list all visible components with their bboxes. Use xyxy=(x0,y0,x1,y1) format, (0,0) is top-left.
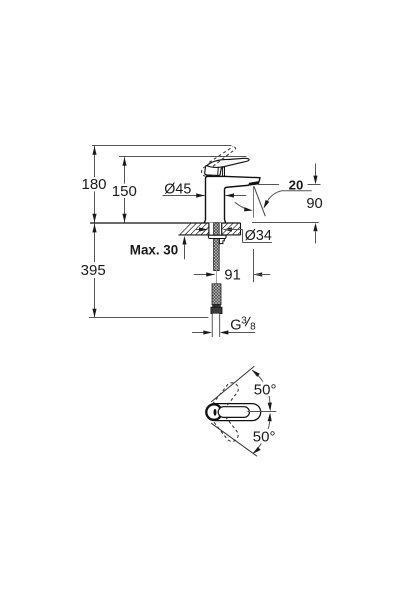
braided hose section xyxy=(212,284,221,305)
connection tube xyxy=(212,314,219,337)
dimension 180 xyxy=(81,146,106,223)
top view handle xyxy=(218,407,249,418)
deck counter bottom line xyxy=(179,234,241,236)
hose nipple step xyxy=(219,239,224,244)
hose connector ring xyxy=(213,305,221,308)
angle arc top xyxy=(252,370,270,409)
dimension G 3/8 xyxy=(192,316,256,335)
svg-text:Max. 30: Max. 30 xyxy=(130,242,178,257)
handle knob inner edge xyxy=(218,161,219,175)
top view centerline xyxy=(248,411,277,413)
svg-text:Ø34: Ø34 xyxy=(245,228,272,244)
svg-text:50°: 50° xyxy=(253,428,276,445)
spout underside xyxy=(225,185,249,190)
handle lever blade xyxy=(207,158,249,167)
top view base circle xyxy=(206,404,221,419)
handle neck xyxy=(223,167,225,177)
angle arrows xyxy=(251,368,260,377)
dimension 395 xyxy=(81,224,106,318)
svg-text:395: 395 xyxy=(81,262,106,279)
dimension Max. 30 xyxy=(130,236,187,259)
spout outlet reference line xyxy=(258,184,320,186)
svg-text:8: 8 xyxy=(250,322,256,333)
water stream angle line xyxy=(254,186,265,216)
svg-text:20: 20 xyxy=(289,177,304,192)
spout aerator wedge xyxy=(248,181,259,185)
swing limit line bottom xyxy=(211,423,257,456)
stream angle arc arrow xyxy=(235,202,250,210)
wire: deck level extension right (90 dim lower ref) xyxy=(252,222,319,224)
supply hose centerline xyxy=(216,264,218,284)
white mask behind 20 label xyxy=(279,178,308,190)
threaded stud xyxy=(214,223,220,271)
white mask for 50 top xyxy=(253,382,280,397)
white mask for 50 bottom xyxy=(252,429,280,444)
wire: 395 bottom extension line xyxy=(89,317,208,319)
dimension Ø45 leader and arrows xyxy=(163,193,247,197)
deck hatching xyxy=(180,224,240,235)
svg-text:91: 91 xyxy=(224,267,240,283)
angle arc bottom xyxy=(253,415,270,454)
handle swing dashed top xyxy=(209,380,241,416)
faucet body outline xyxy=(204,176,260,223)
handle raised position (dashed) xyxy=(202,147,236,177)
dimension Ø34 xyxy=(196,227,272,244)
swing limit line top xyxy=(211,366,254,402)
handle knob base shadow xyxy=(206,175,212,177)
20 leader line xyxy=(265,191,312,206)
dimension 150 xyxy=(112,157,137,222)
faucet body right edge xyxy=(225,190,226,223)
svg-text:G: G xyxy=(230,317,241,333)
handle swing dashed bottom xyxy=(208,407,240,443)
deck counter top line xyxy=(90,222,241,224)
dimension 90 xyxy=(306,164,322,244)
wire: 180 top extension line xyxy=(92,145,232,147)
handle knob xyxy=(205,166,224,176)
wire: 150 top extension line xyxy=(119,156,247,158)
mounting shank xyxy=(209,223,222,235)
top view body outline xyxy=(206,404,261,421)
hose connector nut xyxy=(211,307,222,313)
svg-text:90: 90 xyxy=(306,196,322,212)
svg-text:Ø45: Ø45 xyxy=(164,181,191,197)
water stream vertical line xyxy=(253,186,255,217)
svg-text:50°: 50° xyxy=(254,381,277,398)
svg-text:150: 150 xyxy=(112,183,137,200)
mounting flange nut xyxy=(208,235,226,238)
svg-text:180: 180 xyxy=(81,176,106,193)
dimension 91 xyxy=(194,249,270,283)
top view cartridge slot xyxy=(214,409,217,416)
deck right edge xyxy=(240,223,242,235)
